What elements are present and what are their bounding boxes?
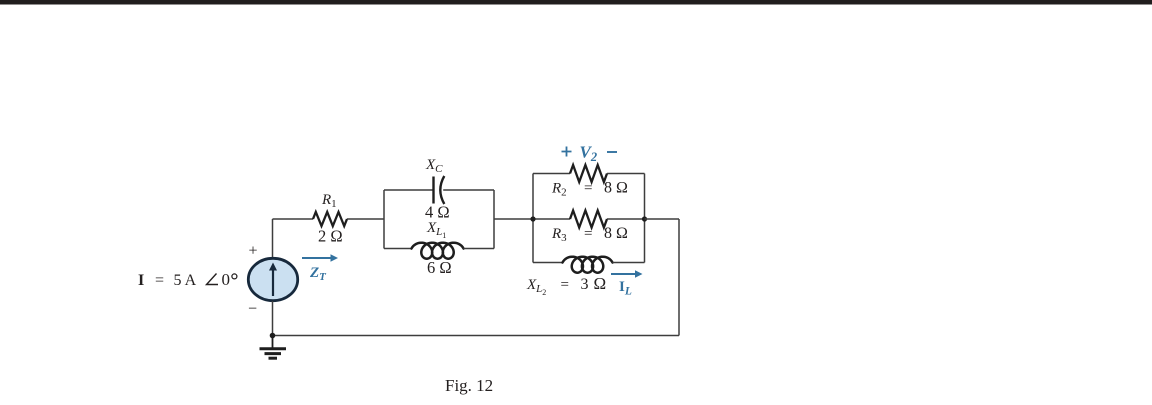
svg-text:=: = xyxy=(584,181,592,197)
svg-text:0: 0 xyxy=(222,270,231,289)
wire: main horizontal left segment to R1 xyxy=(273,218,314,220)
svg-text:I: I xyxy=(138,272,144,289)
box2 top wire left of R2 xyxy=(533,173,570,175)
svg-text:8 Ω: 8 Ω xyxy=(604,180,628,197)
box2 top wire right of R2 xyxy=(607,173,645,175)
wire: main between boxes through R3 left xyxy=(533,218,570,220)
wire: box2 right to outer right corner xyxy=(645,218,680,220)
value 6 ohm xyxy=(427,258,452,277)
current arrow IL xyxy=(611,270,643,278)
svg-text:XL1: XL1 xyxy=(426,220,446,240)
box1 left vertical wire xyxy=(383,190,385,249)
ground node junction dot xyxy=(270,333,276,339)
box1 top wire right of capacitor xyxy=(443,189,494,191)
label XL1 xyxy=(426,220,446,240)
resistor R2 xyxy=(570,165,607,182)
box2 left vertical wire xyxy=(532,174,534,263)
wire: right vertical down xyxy=(678,219,680,336)
ground xyxy=(260,336,287,359)
svg-text:5 A: 5 A xyxy=(174,272,197,289)
svg-text:3: 3 xyxy=(581,276,589,293)
value 2 ohm xyxy=(318,227,343,246)
inductor XL2 xyxy=(563,257,613,273)
svg-text:Fig. 12: Fig. 12 xyxy=(445,376,493,395)
current source I xyxy=(248,258,297,300)
node junction dot left of box2 xyxy=(530,216,535,221)
wire: box1 to box2 xyxy=(494,218,533,220)
wire: R1 to box1 xyxy=(347,218,384,220)
label + V2 minus xyxy=(562,143,618,165)
inductor XL1 xyxy=(412,243,464,259)
box2 bottom wire right of XL2 xyxy=(613,262,645,264)
resistor R3 xyxy=(570,211,607,228)
svg-text:XC: XC xyxy=(425,157,443,175)
svg-text:4 Ω: 4 Ω xyxy=(425,203,450,222)
resistor R1 xyxy=(313,212,347,226)
capacitor XC xyxy=(434,176,445,204)
svg-text:8 Ω: 8 Ω xyxy=(604,225,628,242)
svg-text:XL2: XL2 xyxy=(526,277,546,297)
svg-text:+: + xyxy=(249,243,258,260)
label IL xyxy=(619,279,632,298)
wire: R3 right to box2 right xyxy=(607,218,645,220)
label I = 5 A angle 0 deg xyxy=(138,270,237,289)
source minus sign xyxy=(248,301,257,318)
box1 top wire left of capacitor xyxy=(384,189,433,191)
wire: source top to main node xyxy=(272,219,274,258)
label R1 xyxy=(321,192,337,210)
svg-text:=: = xyxy=(155,272,164,289)
label XC xyxy=(425,157,443,175)
top border bar xyxy=(0,0,1152,5)
label ZT xyxy=(309,265,327,283)
svg-text:R2: R2 xyxy=(551,181,567,199)
svg-text:=: = xyxy=(584,226,592,242)
svg-text:V2: V2 xyxy=(580,143,598,165)
svg-text:2 Ω: 2 Ω xyxy=(318,227,343,246)
label R2 = 8 ohm xyxy=(551,180,628,199)
wire: bottom horizontal return xyxy=(273,335,680,337)
svg-text:=: = xyxy=(561,277,569,293)
box1 bottom wire right of inductor xyxy=(464,248,495,250)
box1 right vertical wire xyxy=(493,190,495,249)
label R3 = 8 ohm xyxy=(551,225,628,244)
impedance arrow ZT xyxy=(302,254,338,262)
svg-text:IL: IL xyxy=(619,279,632,298)
svg-text:ZT: ZT xyxy=(309,265,327,283)
box2 right vertical wire xyxy=(644,174,646,263)
svg-text:R3: R3 xyxy=(551,226,567,244)
box2 bottom wire left of XL2 xyxy=(533,262,563,264)
svg-text:−: − xyxy=(248,301,257,318)
source plus sign xyxy=(249,243,258,260)
wire: source bottom to ground node xyxy=(272,301,274,336)
box1 bottom wire left of inductor xyxy=(384,248,412,250)
node junction dot right of box2 xyxy=(642,216,647,221)
svg-text:Ω: Ω xyxy=(594,274,607,293)
svg-text:R1: R1 xyxy=(321,192,337,210)
value 4 ohm xyxy=(425,203,450,222)
svg-text:6 Ω: 6 Ω xyxy=(427,258,452,277)
caption Fig. 12 xyxy=(445,376,493,395)
label XL2 = 3 ohm xyxy=(526,274,606,297)
